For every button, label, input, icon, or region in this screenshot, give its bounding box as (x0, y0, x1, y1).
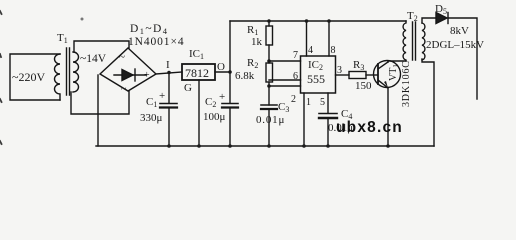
wire pin 7 (269, 60, 301, 62)
node I dot (167, 71, 171, 75)
diode D5 (436, 13, 448, 24)
bridge internal diode (114, 69, 146, 81)
svg-text:1N4001×4: 1N4001×4 (128, 36, 185, 48)
resistor R1 (266, 21, 273, 61)
svg-text:0.01μ: 0.01μ (256, 114, 285, 126)
node O dot (228, 70, 232, 74)
bridge rectifier D1-D4 diamond (100, 48, 156, 91)
node pin2 junction dot (267, 84, 271, 88)
svg-text:~14V: ~14V (80, 53, 107, 65)
svg-text:7812: 7812 (185, 66, 209, 80)
wire collector to T2 (388, 61, 406, 62)
svg-text:G: G (184, 82, 192, 94)
wire pin 5 (327, 93, 329, 113)
svg-text:O: O (217, 61, 225, 73)
capacitor C4 (319, 114, 337, 147)
capacitor C1 (160, 73, 177, 147)
svg-text:8kV: 8kV (450, 25, 469, 37)
transistor VT1 (374, 61, 401, 89)
wire output riser to top rail (229, 21, 231, 72)
svg-text:6: 6 (293, 71, 298, 82)
svg-text:1: 1 (306, 97, 311, 108)
svg-text:2: 2 (291, 94, 296, 105)
svg-text:~: ~ (119, 51, 125, 63)
wire T2 secondary bottom to ground (422, 59, 434, 146)
svg-text:8: 8 (331, 45, 336, 56)
bottom ground rail (96, 145, 434, 147)
rail junction dots (167, 144, 171, 148)
regulator IC1 7812 box (182, 64, 215, 80)
svg-text:555: 555 (307, 72, 325, 86)
page edge marks (0, 11, 2, 144)
wire bridge output to IC1 (156, 72, 182, 74)
svg-text:~: ~ (121, 84, 127, 95)
wire secondary to D5 (422, 18, 436, 23)
wire pin 2 (269, 85, 301, 87)
node R1 top dot (267, 19, 271, 23)
svg-text:2DGL–15kV: 2DGL–15kV (426, 39, 484, 51)
svg-text:5: 5 (320, 97, 325, 108)
resistor R3 (349, 72, 377, 79)
resistor R2 (266, 61, 273, 105)
svg-text:3: 3 (337, 65, 342, 76)
svg-text:6.8k: 6.8k (235, 70, 255, 82)
svg-text:+: + (159, 90, 165, 102)
wire pin 1 (303, 93, 305, 146)
top rail (230, 20, 406, 22)
capacitor C2 (222, 72, 238, 146)
svg-text:4: 4 (308, 45, 313, 56)
wire IC1 ground pin (198, 80, 200, 146)
IC2 555 box (301, 56, 336, 93)
svg-text:3DK106C: 3DK106C (401, 60, 412, 107)
wire IC1 output (215, 71, 230, 73)
svg-text:~220V: ~220V (12, 70, 45, 84)
wire secondary bottom to bridge bottom (71, 91, 129, 114)
svg-text:150: 150 (355, 80, 372, 92)
transformer T2 core (413, 22, 416, 60)
svg-text:ubx8.cn: ubx8.cn (336, 119, 403, 136)
node pin7 junction dot (267, 59, 271, 63)
wire secondary top to bridge (74, 41, 129, 52)
svg-text:+: + (144, 70, 150, 81)
svg-text:7: 7 (293, 50, 298, 61)
transformer T2 primary winding (403, 21, 406, 61)
transformer T2 secondary winding (422, 23, 425, 60)
wire pin 8 (328, 21, 330, 56)
transformer T1 secondary winding (73, 52, 79, 92)
wire pin 3 (336, 74, 350, 76)
svg-text:100μ: 100μ (203, 111, 226, 123)
svg-text:330μ: 330μ (140, 112, 163, 124)
svg-text:I: I (166, 59, 170, 71)
wire pin 6 (269, 79, 301, 81)
svg-text:1k: 1k (251, 36, 263, 48)
capacitor C3 (261, 105, 277, 146)
transformer T1 core (67, 48, 70, 95)
wire bridge minus to ground rail (97, 75, 99, 146)
HV output wire (448, 18, 477, 99)
svg-text:D1~D4: D1~D4 (130, 23, 168, 36)
wire pin 4 (306, 21, 308, 56)
AC source ~220V loop (10, 54, 60, 100)
transformer T1 primary winding (55, 54, 61, 100)
svg-text:+: + (219, 91, 225, 103)
wire emitter to ground (387, 88, 389, 146)
